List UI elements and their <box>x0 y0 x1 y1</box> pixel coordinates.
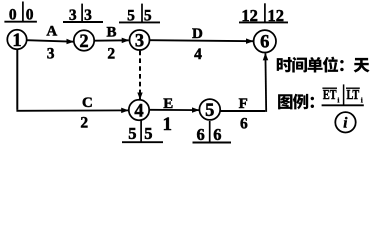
svg-text:3: 3 <box>84 7 92 24</box>
svg-text:5: 5 <box>127 7 135 24</box>
node time label 6|6 below node 5 <box>193 121 232 144</box>
activity label C <box>82 95 93 111</box>
arrow F vertical up into node 6 <box>264 53 267 112</box>
svg-text:2: 2 <box>80 115 88 132</box>
arrow F horizontal from node 5 <box>220 110 265 112</box>
svg-text:6: 6 <box>260 33 269 53</box>
activity label E <box>163 96 173 112</box>
legend node i circle <box>335 112 355 132</box>
svg-text:B: B <box>106 24 116 40</box>
svg-text:1: 1 <box>12 31 21 51</box>
svg-text:6: 6 <box>196 125 204 144</box>
svg-text:F: F <box>239 96 248 112</box>
activity label D <box>192 26 203 42</box>
svg-text:i: i <box>337 95 339 104</box>
svg-text:6: 6 <box>240 116 248 133</box>
svg-text:5: 5 <box>205 101 214 121</box>
caption: legend (图例：) <box>278 94 314 110</box>
svg-text:6: 6 <box>213 125 221 144</box>
svg-text:E: E <box>163 96 173 112</box>
node time label 0|0 above node 1 <box>4 2 37 24</box>
node 5 <box>199 99 220 121</box>
duration 1 of activity E <box>163 114 173 135</box>
svg-text:12: 12 <box>267 6 284 25</box>
node 2 <box>74 30 94 52</box>
arrow B from node 2 to node 3 <box>94 39 128 41</box>
svg-text:2: 2 <box>79 32 88 52</box>
activity label A <box>46 23 57 39</box>
dashed dummy activity from node 3 down to node 4 <box>139 51 141 100</box>
svg-text:i: i <box>361 95 363 104</box>
svg-text:0: 0 <box>26 6 34 23</box>
arrow D from node 3 to node 6 <box>150 40 253 41</box>
activity label B <box>106 24 116 40</box>
duration 6 of activity F <box>240 116 248 133</box>
svg-text:4: 4 <box>134 101 143 121</box>
svg-text:12: 12 <box>241 6 258 25</box>
arrow E from node 4 to node 5 <box>149 109 199 111</box>
node time label 5|5 below node 4 <box>122 120 163 143</box>
node 6 <box>254 30 276 53</box>
duration 4 of activity D <box>194 46 202 63</box>
activity label F <box>239 96 248 112</box>
svg-text:A: A <box>46 23 57 39</box>
svg-text:D: D <box>192 26 203 42</box>
svg-text:3: 3 <box>135 31 144 51</box>
svg-text:ET: ET <box>323 86 337 102</box>
svg-text:5: 5 <box>144 124 152 143</box>
node 3 <box>130 30 150 51</box>
svg-text:3: 3 <box>69 7 77 24</box>
arrow A from node 1 to node 2 <box>27 40 74 42</box>
svg-text:1: 1 <box>163 114 173 135</box>
wire from node 1 down to activity C row <box>16 49 18 110</box>
svg-text:5: 5 <box>144 7 152 24</box>
svg-text:4: 4 <box>194 46 202 63</box>
node time label 3|3 above node 2 <box>63 4 103 25</box>
duration 2 of activity C <box>80 115 88 132</box>
svg-text:0: 0 <box>9 6 17 23</box>
svg-text:2: 2 <box>107 46 115 63</box>
legend ET_i | LT_i box <box>322 84 364 105</box>
svg-text:LT: LT <box>347 86 360 102</box>
duration 2 of activity B <box>107 46 115 63</box>
node 1 <box>7 30 26 51</box>
node time label 5|5 above node 3 <box>119 4 160 25</box>
caption: time unit days (时间单位：天) <box>277 57 370 73</box>
node 4 <box>129 100 149 122</box>
svg-text:3: 3 <box>47 46 55 63</box>
node time label 12|12 above node 6 <box>239 3 288 25</box>
arrow C horizontal into node 4 <box>16 109 128 111</box>
svg-text:C: C <box>82 95 93 111</box>
duration 3 of activity A <box>47 46 55 63</box>
svg-text:5: 5 <box>128 124 136 143</box>
